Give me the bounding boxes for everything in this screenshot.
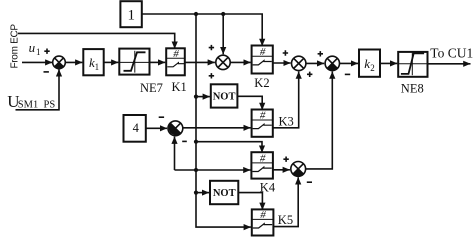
svg-text:NOT: NOT (213, 92, 236, 103)
svg-text:4: 4 (133, 121, 140, 135)
svg-text:1: 1 (95, 62, 100, 72)
svg-text:K5: K5 (278, 213, 293, 227)
svg-text:K1: K1 (172, 80, 187, 94)
svg-text:NE7: NE7 (140, 81, 163, 95)
svg-text:NOT: NOT (213, 188, 236, 199)
svg-text:2: 2 (370, 63, 375, 73)
svg-text:K4: K4 (260, 180, 276, 194)
svg-text:From ECP: From ECP (9, 24, 20, 69)
svg-text:To CU1: To CU1 (430, 45, 473, 60)
svg-text:SM1: SM1 (18, 100, 38, 111)
svg-text:K2: K2 (254, 76, 269, 90)
svg-text:1: 1 (127, 7, 135, 23)
svg-text:#: # (173, 48, 179, 60)
svg-text:#: # (260, 209, 266, 221)
svg-text:PS: PS (44, 100, 56, 111)
svg-text:#: # (260, 109, 266, 121)
svg-text:#: # (260, 46, 266, 58)
svg-text:NE8: NE8 (401, 81, 424, 95)
svg-text:K3: K3 (279, 114, 294, 128)
svg-text:1: 1 (36, 47, 41, 57)
svg-text:#: # (260, 152, 266, 164)
svg-text:u: u (29, 40, 36, 55)
